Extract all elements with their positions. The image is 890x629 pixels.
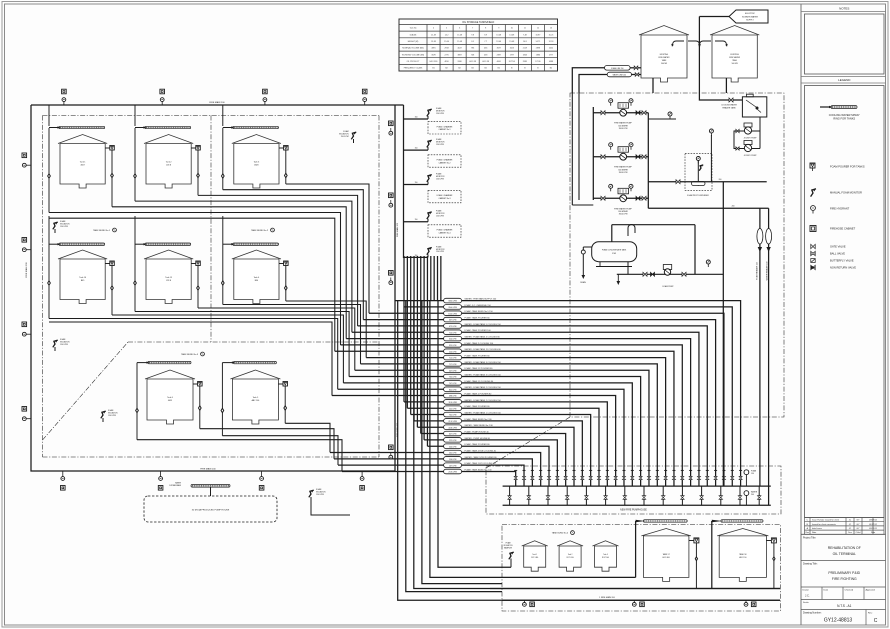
svg-text:7.48: 7.48: [523, 34, 527, 36]
svg-text:NEW FIRE PUMPHOUSE: NEW FIRE PUMPHOUSE: [620, 510, 647, 512]
svg-text:3678: 3678: [431, 54, 435, 56]
svg-text:150#LPM: 150#LPM: [436, 178, 444, 180]
svg-text:Issued for client comments: Issued for client comments: [812, 523, 836, 526]
svg-text:12.18: 12.18: [549, 41, 554, 43]
svg-text:01/17/12: 01/17/12: [869, 524, 878, 526]
svg-text:09/15/11: 09/15/11: [869, 528, 878, 530]
svg-text:FIRE WATER: FIRE WATER: [729, 56, 741, 59]
svg-text:GY12-48813: GY12-48813: [824, 618, 853, 624]
svg-text:337 LPM: 337 LPM: [449, 320, 457, 322]
svg-text:TANK BUND No.1: TANK BUND No.1: [93, 229, 111, 232]
svg-text:324 LPM: 324 LPM: [449, 339, 457, 341]
svg-text:DRAIN: DRAIN: [580, 281, 586, 284]
svg-text:Drawn: Drawn: [803, 589, 810, 592]
svg-text:4455: 4455: [168, 400, 172, 402]
svg-text:Tank 2: Tank 2: [166, 161, 172, 163]
svg-text:FIRE MAIN 200: FIRE MAIN 200: [209, 101, 225, 104]
svg-text:Approved: Approved: [866, 589, 876, 592]
svg-text:4: 4: [433, 28, 434, 30]
svg-text:3500 LPM: 3500 LPM: [619, 128, 628, 130]
svg-text:TANK: TANK: [662, 59, 667, 62]
svg-text:FOAM HEADER 150: FOAM HEADER 150: [756, 262, 759, 280]
svg-text:262 LPM: 262 LPM: [449, 453, 457, 455]
svg-text:COOLING WATER SPRAY: COOLING WATER SPRAY: [829, 113, 860, 117]
svg-text:150#LPM: 150#LPM: [60, 226, 68, 228]
svg-text:FREQUENCY CLASS: FREQUENCY CLASS: [404, 67, 423, 70]
svg-text:720 LPM: 720 LPM: [449, 332, 457, 334]
svg-text:GATE VALVE: GATE VALVE: [830, 245, 846, 249]
svg-text:150#LPM: 150#LPM: [316, 494, 324, 496]
svg-text:HFO 38: HFO 38: [482, 61, 489, 63]
svg-text:JOCKEY PUMP: JOCKEY PUMP: [744, 138, 758, 140]
svg-text:2885: 2885: [523, 61, 527, 63]
svg-text:FIRE WATER: FIRE WATER: [659, 56, 671, 59]
svg-text:Rev:: Rev:: [868, 613, 873, 615]
svg-text:TANK BUND No.2: TANK BUND No.2: [251, 229, 269, 232]
svg-text:TANK BUND No.3: TANK BUND No.3: [181, 353, 199, 356]
svg-text:SUNKEN WATER: SUNKEN WATER: [742, 15, 758, 18]
svg-text:672 LPM: 672 LPM: [449, 326, 457, 328]
svg-text:150: 150: [415, 182, 418, 184]
svg-text:156 LPM: 156 LPM: [449, 459, 457, 461]
svg-text:B2: B2: [550, 68, 552, 70]
svg-text:2080: 2080: [457, 61, 461, 63]
svg-text:Drawing Title:: Drawing Title:: [803, 563, 818, 566]
svg-text:150: 150: [415, 255, 418, 257]
svg-text:500 M3: 500 M3: [732, 63, 738, 65]
svg-text:FIRE MAIN 200: FIRE MAIN 200: [200, 468, 216, 471]
svg-text:ROY LNG: ROY LNG: [567, 557, 575, 559]
svg-text:5800 LPM: 5800 LPM: [448, 301, 457, 303]
svg-text:4047: 4047: [457, 48, 461, 50]
svg-text:WATER LINE 200: WATER LINE 200: [613, 74, 626, 77]
svg-text:ELECTRIC: ELECTRIC: [745, 13, 755, 15]
svg-text:FOAM / CHAMBER: FOAM / CHAMBER: [437, 194, 453, 197]
svg-text:3097: 3097: [497, 48, 501, 50]
svg-text:4567: 4567: [80, 164, 84, 166]
svg-text:200: 200: [732, 206, 735, 208]
svg-text:9: 9: [498, 28, 499, 30]
svg-text:WATER HEADER 200: WATER HEADER 200: [766, 262, 769, 281]
svg-text:SUPPLY: SUPPLY: [746, 20, 754, 22]
svg-text:BALL VALVE: BALL VALVE: [830, 252, 845, 256]
svg-text:B2: B2: [485, 68, 487, 70]
svg-text:4891: 4891: [431, 48, 435, 50]
svg-text:Tank 2: Tank 2: [568, 554, 573, 556]
svg-text:HFO 38: HFO 38: [469, 61, 476, 63]
svg-text:150: 150: [751, 473, 754, 475]
svg-text:200 LPM: 200 LPM: [449, 446, 457, 448]
svg-text:19.44: 19.44: [444, 41, 449, 43]
svg-text:802 LPM: 802 LPM: [449, 389, 457, 391]
svg-text:REHABILITATION OF: REHABILITATION OF: [828, 546, 861, 550]
svg-text:B2: B2: [498, 68, 500, 70]
svg-text:150: 150: [415, 117, 418, 119]
svg-text:15.48: 15.48: [457, 41, 462, 43]
svg-text:DT 80: DT 80: [535, 61, 540, 63]
svg-text:Tank 1: Tank 1: [532, 554, 537, 556]
svg-text:FIRE WATER PUMP: FIRE WATER PUMP: [614, 207, 632, 210]
svg-text:1600 LPM: 1600 LPM: [448, 313, 457, 315]
svg-text:WORKING VOLUME (M3): WORKING VOLUME (M3): [402, 54, 425, 56]
svg-text:NOMINAL VOLUME (M3): NOMINAL VOLUME (M3): [402, 47, 424, 50]
svg-text:CABINET No.4: CABINET No.4: [438, 231, 450, 234]
svg-text:2077-B: 2077-B: [509, 61, 516, 63]
svg-text:Tank No: Tank No: [410, 28, 417, 30]
svg-text:CABINET No.1: CABINET No.1: [438, 128, 450, 131]
svg-text:717 LPM: 717 LPM: [449, 364, 457, 366]
svg-text:SAMPLER: SAMPLER: [504, 546, 513, 549]
svg-text:2129: 2129: [523, 48, 527, 50]
svg-text:OIL TERMINAL: OIL TERMINAL: [833, 552, 856, 556]
svg-text:2898: 2898: [536, 48, 540, 50]
svg-text:520 LPM: 520 LPM: [449, 351, 457, 353]
svg-text:1843: 1843: [523, 54, 527, 56]
svg-text:9.8: 9.8: [471, 34, 474, 36]
svg-text:2770: 2770: [444, 54, 448, 56]
svg-text:NON RETURN VALVE: NON RETURN VALVE: [830, 266, 856, 270]
svg-text:Scale:: Scale:: [803, 602, 809, 604]
svg-text:Issue Partials: issued for cli: Issue Partials: issued for client: [812, 519, 839, 522]
svg-text:2887: 2887: [497, 54, 501, 56]
svg-text:8: 8: [485, 28, 486, 30]
svg-text:B2: B2: [458, 68, 460, 70]
svg-text:13.48: 13.48: [509, 34, 514, 36]
svg-text:BUTTERFLY VALVE: BUTTERFLY VALVE: [830, 259, 854, 263]
svg-text:150#LPM: 150#LPM: [436, 113, 444, 115]
svg-text:OIL PRODUCT: OIL PRODUCT: [407, 61, 421, 63]
svg-text:Initial issue: Initial issue: [812, 527, 823, 530]
svg-text:7.7: 7.7: [484, 41, 487, 43]
svg-text:14.71: 14.71: [536, 41, 541, 43]
svg-text:FIRE WATER PUMP: FIRE WATER PUMP: [614, 166, 632, 169]
svg-text:HFO 380: HFO 380: [430, 61, 438, 63]
svg-text:3500 LPM: 3500 LPM: [619, 214, 628, 216]
svg-text:1623: 1623: [510, 48, 514, 50]
svg-text:2777: 2777: [549, 54, 553, 56]
svg-text:13: 13: [550, 28, 552, 30]
svg-text:ABC 100: ABC 100: [252, 399, 260, 402]
svg-text:200: 200: [719, 179, 722, 181]
svg-text:15.08: 15.08: [509, 41, 514, 43]
svg-text:FOAM PROP DISPENSER: FOAM PROP DISPENSER: [687, 194, 709, 197]
svg-text:J23 B: J23 B: [166, 280, 172, 282]
svg-text:13.48: 13.48: [431, 41, 436, 43]
svg-text:436: 436: [484, 48, 487, 50]
svg-text:8.9: 8.9: [484, 34, 487, 36]
svg-text:1 FIRE MAIN 200: 1 FIRE MAIN 200: [599, 596, 616, 599]
svg-text:FIREHOSE CABINET: FIREHOSE CABINET: [830, 227, 856, 231]
svg-text:FOAM LINE 150: FOAM LINE 150: [611, 67, 623, 70]
svg-text:3500 LPM: 3500 LPM: [448, 307, 457, 309]
svg-text:EXISTING: EXISTING: [660, 54, 669, 56]
svg-text:TANK 57: TANK 57: [663, 553, 670, 556]
svg-text:HEADER TANK: HEADER TANK: [722, 106, 736, 109]
svg-text:762 LPM: 762 LPM: [449, 415, 457, 417]
svg-text:150#LPM: 150#LPM: [60, 344, 68, 346]
svg-text:1886: 1886: [536, 54, 540, 56]
svg-text:JOCKEY PUMP: JOCKEY PUMP: [744, 155, 758, 157]
svg-text:3500 LPM: 3500 LPM: [619, 172, 628, 174]
svg-text:FIRE FIGHTING: FIRE FIGHTING: [832, 577, 857, 581]
svg-text:715 LPM: 715 LPM: [449, 358, 457, 360]
svg-text:12: 12: [537, 28, 539, 30]
svg-text:13.48: 13.48: [496, 34, 501, 36]
svg-text:2918: 2918: [444, 48, 448, 50]
svg-text:HFO 300: HFO 300: [663, 557, 670, 559]
svg-text:4988: 4988: [549, 61, 553, 63]
svg-text:4000: 4000: [497, 61, 501, 63]
svg-text:150: 150: [415, 219, 418, 221]
svg-text:16.87: 16.87: [536, 34, 541, 36]
svg-text:TANK BUND No.4: TANK BUND No.4: [552, 532, 569, 535]
svg-text:8.5: 8.5: [471, 41, 474, 43]
svg-text:1130 LPM: 1130 LPM: [448, 402, 457, 404]
svg-text:J23 B: J23 B: [166, 164, 172, 166]
svg-text:15.25: 15.25: [549, 34, 554, 36]
svg-text:13.46: 13.46: [496, 41, 501, 43]
svg-text:FIRE WATER PUMP: FIRE WATER PUMP: [614, 122, 632, 125]
svg-text:222 LPM: 222 LPM: [449, 440, 457, 442]
svg-text:PRELIMINARY P&ID: PRELIMINARY P&ID: [828, 571, 860, 575]
svg-text:FOAM CONCENTRATE TANK: FOAM CONCENTRATE TANK: [602, 249, 627, 252]
svg-text:ROY LNG: ROY LNG: [531, 557, 539, 559]
svg-text:Tank 3: Tank 3: [603, 554, 608, 556]
svg-text:FOAM / CHAMBER: FOAM / CHAMBER: [437, 229, 453, 232]
svg-text:MANUAL FOAM MONITOR: MANUAL FOAM MONITOR: [830, 191, 862, 195]
svg-text:Tank 16: Tank 16: [79, 277, 86, 279]
svg-text:4610: 4610: [444, 61, 448, 63]
svg-text:Tank 4: Tank 4: [254, 277, 260, 279]
svg-text:B2: B2: [471, 68, 473, 70]
svg-text:2132 LPM: 2132 LPM: [448, 421, 457, 423]
svg-text:TANK: TANK: [732, 59, 737, 62]
svg-text:ROY LNG: ROY LNG: [602, 557, 610, 559]
svg-text:11: 11: [524, 28, 526, 30]
svg-text:RING FOR TANKS: RING FOR TANKS: [833, 116, 855, 120]
svg-text:3887: 3887: [457, 54, 461, 56]
svg-text:30 M DIA PRODUCED PUMP HOUSE: 30 M DIA PRODUCED PUMP HOUSE: [192, 509, 230, 512]
svg-text:500 M3: 500 M3: [661, 63, 667, 65]
svg-text:Tank 5: Tank 5: [253, 397, 259, 399]
svg-text:COOLING WATER: COOLING WATER: [721, 104, 737, 107]
svg-text:607 LPM: 607 LPM: [449, 434, 457, 436]
svg-text:CURTAIN MAIN: CURTAIN MAIN: [169, 484, 182, 487]
svg-text:B45: B45: [81, 280, 84, 282]
svg-text:HFO 150: HFO 150: [739, 557, 746, 559]
svg-text:TANK 58: TANK 58: [739, 553, 746, 556]
svg-text:FIRE MAIN 200: FIRE MAIN 200: [25, 262, 28, 278]
svg-text:1797: 1797: [510, 54, 514, 56]
svg-text:21.48: 21.48: [431, 34, 436, 36]
svg-text:B1: B1: [432, 68, 434, 70]
svg-text:HEIGHT (M): HEIGHT (M): [408, 41, 419, 43]
svg-text:5: 5: [446, 28, 447, 30]
svg-text:207 LPM: 207 LPM: [449, 370, 457, 372]
svg-text:C: C: [874, 618, 878, 624]
svg-text:Project Title:: Project Title:: [803, 537, 816, 540]
svg-text:DIA (M): DIA (M): [410, 33, 417, 36]
svg-text:J.C.: J.C.: [805, 594, 810, 598]
svg-text:Tank 3: Tank 3: [254, 161, 260, 163]
svg-text:150: 150: [415, 148, 418, 150]
svg-text:150#LPM: 150#LPM: [341, 136, 349, 138]
svg-text:150#LPM: 150#LPM: [436, 251, 444, 253]
svg-text:FOAM / CHAMBER: FOAM / CHAMBER: [437, 159, 453, 162]
svg-text:NOTES: NOTES: [839, 7, 849, 11]
svg-text:CABINET No.3: CABINET No.3: [438, 197, 450, 200]
svg-text:735 LPM: 735 LPM: [449, 377, 457, 379]
svg-text:150#LPM: 150#LPM: [108, 415, 116, 417]
svg-text:B2: B2: [445, 68, 447, 70]
svg-text:202 LPM: 202 LPM: [449, 408, 457, 410]
svg-text:OIL STORAGE TANKS/FIELD: OIL STORAGE TANKS/FIELD: [462, 21, 494, 24]
svg-text:03/17/12: 03/17/12: [869, 520, 878, 522]
svg-text:398 LPM: 398 LPM: [449, 396, 457, 398]
svg-text:167 LPM: 167 LPM: [449, 465, 457, 467]
svg-text:7: 7: [472, 28, 473, 30]
svg-text:150#LPM: 150#LPM: [436, 144, 444, 146]
svg-text:FIRE MAIN 200: FIRE MAIN 200: [396, 222, 399, 237]
svg-text:4036 LPM: 4036 LPM: [448, 427, 457, 429]
svg-text:15.48: 15.48: [457, 34, 462, 36]
svg-text:786: 786: [471, 48, 474, 50]
svg-text:200: 200: [751, 494, 754, 496]
svg-text:10: 10: [511, 28, 513, 30]
svg-text:N.T.S - A1: N.T.S - A1: [837, 604, 852, 608]
svg-text:CABINET No.2: CABINET No.2: [438, 161, 450, 164]
svg-text:2535 LPM: 2535 LPM: [448, 472, 457, 474]
svg-text:4823: 4823: [254, 164, 258, 166]
svg-text:325 LPM: 325 LPM: [449, 345, 457, 347]
svg-text:14.8: 14.8: [523, 41, 527, 43]
svg-text:150#LPM: 150#LPM: [436, 216, 444, 218]
svg-text:5 M3: 5 M3: [612, 253, 616, 255]
svg-text:FOAM PUMP: FOAM PUMP: [663, 285, 675, 288]
svg-text:FIRE HYDRANT: FIRE HYDRANT: [830, 207, 850, 211]
svg-text:748: 748: [471, 54, 474, 56]
svg-text:FOAM / CHAMBER: FOAM / CHAMBER: [437, 125, 453, 128]
svg-text:Checked: Checked: [845, 590, 854, 592]
svg-text:Tank 6: Tank 6: [167, 397, 173, 399]
svg-text:Drawing Number:: Drawing Number:: [803, 612, 822, 615]
svg-text:14.2: 14.2: [445, 34, 449, 36]
svg-text:2052: 2052: [549, 48, 553, 50]
svg-text:Tank 15: Tank 15: [165, 277, 172, 279]
svg-text:Date: Date: [824, 589, 829, 592]
svg-text:Tank 1: Tank 1: [80, 161, 86, 163]
svg-text:FOAM POURER FOR TANKS: FOAM POURER FOR TANKS: [830, 165, 865, 169]
svg-text:LEGEND: LEGEND: [838, 78, 851, 82]
svg-text:747 LPM: 747 LPM: [449, 383, 457, 385]
svg-text:438: 438: [484, 54, 487, 56]
svg-text:EXISTING: EXISTING: [730, 54, 739, 56]
svg-text:B90: B90: [255, 280, 258, 282]
svg-text:6: 6: [459, 28, 460, 30]
